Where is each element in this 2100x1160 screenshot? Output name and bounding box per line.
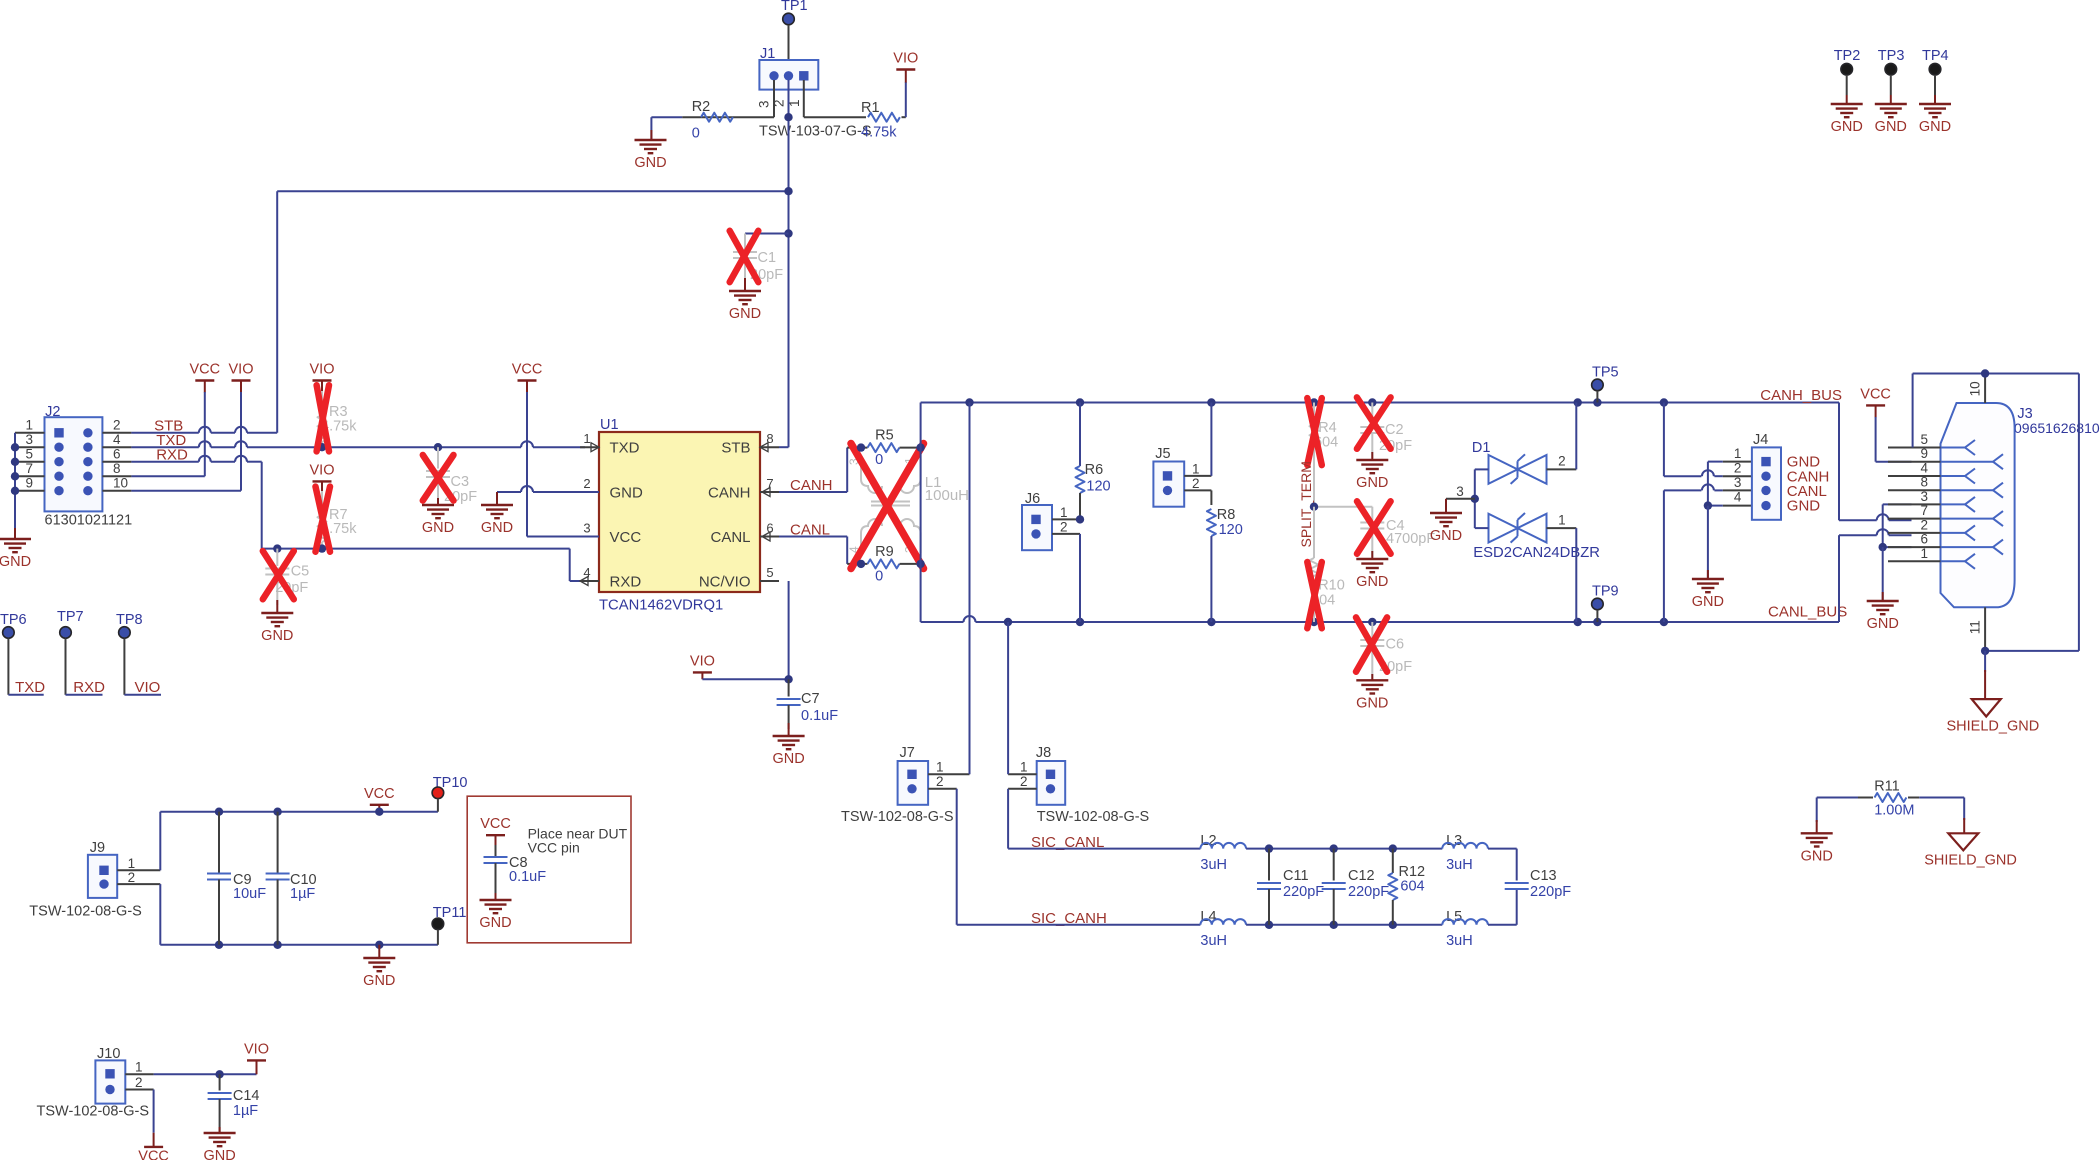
svg-text:TXD: TXD — [15, 679, 45, 696]
ground GND (TP3) — [1875, 103, 1907, 105]
svg-text:VIO: VIO — [310, 462, 335, 478]
svg-text:3: 3 — [1456, 484, 1464, 499]
ground GND (R2) — [650, 130, 652, 140]
ground GND (C2) — [1371, 452, 1373, 460]
ground GND (J4) — [1707, 570, 1709, 579]
resistor R4 (DNP) — [1313, 403, 1315, 416]
svg-text:TP3: TP3 — [1878, 48, 1905, 64]
DNP cross C2 — [1357, 397, 1391, 448]
ground SHIELD_GND (R11) — [1948, 833, 1978, 850]
svg-text:C1: C1 — [758, 250, 777, 266]
svg-text:RXD: RXD — [73, 679, 105, 696]
ground GND (J2) — [14, 528, 16, 539]
svg-text:VIO: VIO — [229, 362, 254, 378]
svg-text:1: 1 — [1060, 505, 1068, 520]
node junctions CANL bus — [1004, 618, 1012, 626]
wire CANH — [779, 491, 847, 493]
svg-text:TP9: TP9 — [1592, 584, 1619, 600]
svg-text:1: 1 — [1920, 546, 1928, 561]
ground GND (C1) — [744, 278, 746, 291]
svg-text:VIO: VIO — [244, 1041, 269, 1057]
svg-text:L2: L2 — [1200, 833, 1216, 849]
svg-text:GND: GND — [203, 1148, 235, 1160]
svg-text:TXD: TXD — [610, 440, 640, 457]
wire J9 pin1 — [117, 869, 160, 871]
note box place near DUT — [467, 796, 631, 943]
ground GND (D1) — [1445, 499, 1447, 513]
capacitor C10 — [273, 808, 281, 816]
svg-text:U1: U1 — [600, 417, 619, 433]
wire J10 pin1 to VIO — [125, 1073, 153, 1075]
ground GND (C5) — [276, 600, 278, 613]
svg-text:2: 2 — [128, 870, 136, 885]
wire J8 pin2 to SIC_CANL — [1008, 788, 1037, 790]
wire J1 pin1 stub — [803, 80, 805, 117]
svg-text:1: 1 — [1192, 462, 1200, 477]
svg-text:SHIELD_GND: SHIELD_GND — [1947, 719, 2040, 735]
svg-text:TP8: TP8 — [116, 612, 143, 628]
DNP cross C4 — [1357, 501, 1391, 554]
svg-text:J8: J8 — [1036, 745, 1051, 761]
node junctions L1 — [857, 443, 865, 451]
svg-text:4: 4 — [1734, 490, 1742, 505]
power VCC (J2 pin8) — [195, 379, 214, 381]
svg-text:C14: C14 — [233, 1088, 260, 1104]
ground GND (J3) — [1882, 592, 1884, 601]
wire CANH bus to J4 pin2 — [1663, 403, 1665, 477]
svg-text:7: 7 — [1920, 503, 1928, 518]
svg-text:4: 4 — [1920, 461, 1928, 476]
svg-text:R10: R10 — [1318, 578, 1345, 594]
svg-text:9: 9 — [1920, 446, 1928, 461]
svg-text:10: 10 — [1968, 381, 1983, 396]
svg-text:VCC pin: VCC pin — [528, 840, 580, 856]
wire CANH bus to J3 pin7 — [1838, 403, 1840, 521]
svg-text:8: 8 — [1920, 475, 1928, 490]
svg-text:VIO: VIO — [893, 51, 918, 67]
wire D1 pin1 — [1547, 527, 1577, 529]
svg-text:TP4: TP4 — [1922, 48, 1949, 64]
svg-text:2: 2 — [1734, 461, 1742, 476]
U1 right pin stubs and numbers — [760, 446, 779, 448]
capacitor C13 — [1505, 882, 1529, 884]
wire CANL bus to J4 pin3 — [1663, 490, 1665, 622]
svg-text:CANH_BUS: CANH_BUS — [1760, 387, 1842, 404]
wire split node to C4 — [1314, 506, 1372, 508]
svg-text:2: 2 — [1558, 454, 1566, 469]
capacitor C5 (DNP) — [273, 544, 281, 552]
wire RXD to U1 pin4 — [569, 549, 571, 581]
resistor R3 (DNP) — [321, 391, 323, 415]
capacitor C12 — [1330, 844, 1338, 852]
wire GND rail bottom — [160, 944, 438, 946]
svg-text:VIO: VIO — [310, 362, 335, 378]
svg-text:C7: C7 — [801, 691, 820, 707]
svg-text:8: 8 — [113, 461, 121, 476]
node junction R6/J6 — [1076, 515, 1084, 523]
svg-text:ESD2CAN24DBZR: ESD2CAN24DBZR — [1473, 545, 1600, 561]
capacitor C9 — [215, 808, 223, 816]
svg-text:120: 120 — [1086, 479, 1110, 495]
svg-text:VCC: VCC — [1860, 386, 1891, 402]
wire TXD row — [131, 446, 198, 448]
svg-text:1: 1 — [583, 431, 590, 446]
svg-text:R5: R5 — [875, 428, 894, 444]
svg-text:GND: GND — [1356, 475, 1388, 491]
capacitor C11 — [1265, 844, 1273, 852]
wire VIO vertical to J2 pin10 — [240, 392, 242, 491]
svg-text:3uH: 3uH — [1200, 857, 1227, 873]
power VIO (C7) — [693, 671, 712, 673]
svg-text:10uF: 10uF — [233, 886, 266, 902]
wire VIO to C7 node — [702, 678, 788, 680]
wire J6 pin1 to R6 — [1052, 518, 1080, 520]
svg-text:GND: GND — [261, 628, 293, 644]
svg-text:TP1: TP1 — [781, 0, 808, 14]
wire STB vertical — [276, 191, 278, 433]
svg-text:0: 0 — [875, 569, 883, 585]
svg-text:TP6: TP6 — [0, 612, 27, 628]
svg-text:GND: GND — [1867, 616, 1899, 632]
wire RXD row — [131, 461, 198, 463]
svg-text:1: 1 — [1734, 446, 1742, 461]
svg-text:J4: J4 — [1753, 432, 1768, 448]
node junction J1 pin2 / R1-R2 rail — [784, 113, 792, 121]
svg-text:SHIELD_GND: SHIELD_GND — [1924, 853, 2017, 869]
DNP cross R3 — [317, 385, 329, 451]
wire J9 pin2 — [117, 883, 160, 885]
J3 pin stubs and numbers — [1888, 447, 1941, 449]
svg-text:GND: GND — [1875, 119, 1907, 135]
power VCC (C8) — [486, 834, 505, 836]
svg-text:VIO: VIO — [135, 679, 161, 696]
svg-text:6: 6 — [1920, 532, 1928, 547]
svg-text:GND: GND — [1787, 498, 1821, 515]
svg-text:J7: J7 — [900, 745, 915, 761]
wire L4 to C11 — [1246, 924, 1269, 926]
svg-text:0.1uF: 0.1uF — [801, 708, 838, 724]
svg-text:GND: GND — [1692, 594, 1724, 610]
wire VCC vertical to U1 pin3 — [526, 392, 528, 537]
svg-text:3: 3 — [583, 521, 590, 536]
svg-text:J5: J5 — [1155, 446, 1170, 462]
wire L5 to C13 — [1488, 924, 1517, 926]
wire CANH bus rail — [921, 402, 1839, 404]
wire J10 pin2 to VCC — [125, 1089, 153, 1091]
svg-text:3: 3 — [25, 432, 33, 447]
svg-text:GND: GND — [729, 306, 761, 322]
wire RXD lower row — [262, 548, 570, 550]
wire J5 pin1 to CANH bus — [1184, 475, 1211, 477]
svg-text:TP5: TP5 — [1592, 365, 1619, 381]
wire J2 right pin stubs — [102, 432, 131, 434]
svg-text:09651626810: 09651626810 — [2014, 420, 2100, 436]
svg-text:C12: C12 — [1348, 868, 1375, 884]
ground GND (TP4) — [1919, 103, 1951, 105]
ground SHIELD_GND (J3) — [1972, 699, 2001, 716]
wire D1 pin2 — [1547, 468, 1577, 470]
DNP cross C6 — [1356, 617, 1387, 671]
wire J2 left ground bus — [14, 433, 16, 534]
wire J1 pin3 stub — [773, 80, 775, 117]
node junction STB — [784, 187, 792, 195]
wire CANL bus to J3 pin2 — [1838, 535, 1840, 622]
capacitor C7 — [788, 679, 790, 696]
svg-text:220pF: 220pF — [1283, 884, 1324, 900]
svg-text:VCC: VCC — [512, 362, 543, 378]
U1 pin arrows — [591, 443, 599, 452]
capacitor C8 — [495, 845, 497, 857]
DNP cross C5 — [263, 551, 294, 599]
svg-text:3: 3 — [757, 100, 772, 108]
wire RXD vertical — [261, 462, 263, 549]
wire CANL bus rail — [921, 621, 964, 623]
svg-text:TP2: TP2 — [1834, 48, 1861, 64]
svg-text:3: 3 — [1734, 475, 1742, 490]
svg-text:C6: C6 — [1386, 637, 1405, 653]
svg-text:GND: GND — [0, 554, 31, 570]
svg-text:2: 2 — [1020, 774, 1028, 789]
svg-text:GND: GND — [1801, 848, 1833, 864]
DNP cross R4 — [1307, 398, 1322, 465]
DNP cross R7 — [316, 487, 331, 552]
wire L3 to C13 — [1488, 848, 1517, 850]
wire J2 left pin stubs — [15, 432, 45, 434]
U1 left pin stubs and numbers — [580, 446, 599, 448]
svg-text:1: 1 — [25, 417, 33, 432]
svg-text:4: 4 — [113, 432, 121, 447]
svg-text:0: 0 — [875, 452, 883, 468]
power VIO (J2 pin10) — [232, 379, 251, 381]
svg-text:VCC: VCC — [610, 529, 642, 546]
DNP cross R10 — [1307, 562, 1322, 628]
ground GND (C8) — [495, 893, 497, 900]
svg-text:2: 2 — [1920, 517, 1928, 532]
J3 contact forks — [1941, 447, 1966, 449]
DNP cross C3 — [423, 455, 454, 501]
wire J3 pin3/pin6 ground — [1883, 503, 1912, 505]
power VIO (R3) — [313, 379, 332, 381]
ground GND (C3) — [437, 498, 439, 505]
wire SIC_CANL — [1008, 848, 1200, 850]
svg-text:C2: C2 — [1385, 422, 1404, 438]
wire J4 pin1 to ground — [1723, 461, 1752, 463]
svg-text:R6: R6 — [1085, 462, 1104, 478]
svg-text:VIO: VIO — [690, 653, 715, 669]
svg-text:2: 2 — [113, 417, 121, 432]
ground GND (R11) — [1816, 820, 1818, 833]
svg-text:2: 2 — [1192, 476, 1200, 491]
svg-text:5: 5 — [1920, 432, 1928, 447]
svg-text:GND: GND — [1356, 574, 1388, 590]
node junctions J2 left bus — [11, 443, 19, 451]
wire R11 to SHIELD_GND — [1963, 798, 1965, 821]
ground GND (U1 pin2) — [497, 491, 521, 493]
svg-text:GND: GND — [363, 973, 395, 989]
svg-text:7: 7 — [25, 461, 33, 476]
svg-text:GND: GND — [422, 520, 454, 536]
J3 pin11 stub — [1984, 607, 1986, 651]
svg-text:100uH: 100uH — [925, 487, 969, 504]
svg-text:5: 5 — [25, 446, 33, 461]
svg-text:GND: GND — [772, 751, 804, 767]
svg-text:R9: R9 — [875, 544, 894, 560]
wire J7 pin1 to CANH bus — [928, 773, 969, 775]
svg-text:TSW-102-08-G-S: TSW-102-08-G-S — [29, 904, 142, 920]
svg-text:VCC: VCC — [189, 362, 220, 378]
svg-text:GND: GND — [1430, 528, 1462, 544]
svg-text:604: 604 — [1400, 879, 1424, 895]
wire R2 to GND — [650, 117, 652, 139]
DNP cross L1 — [851, 444, 924, 569]
svg-text:4700pF: 4700pF — [1386, 531, 1435, 547]
wire J4 pin4 to ground — [1723, 505, 1752, 507]
svg-text:2: 2 — [583, 476, 590, 491]
svg-text:VCC: VCC — [138, 1148, 169, 1160]
wire R1 to VIO — [905, 82, 907, 117]
svg-text:9: 9 — [25, 475, 33, 490]
svg-text:C3: C3 — [451, 474, 470, 490]
wire TP1 to J1 pin2 — [788, 25, 790, 60]
svg-text:1: 1 — [135, 1060, 143, 1075]
svg-text:1µF: 1µF — [233, 1103, 258, 1119]
svg-text:L4: L4 — [1200, 909, 1216, 925]
node junction R3/TXD — [318, 443, 326, 451]
node junction split — [1310, 503, 1318, 511]
power VCC (J10) — [153, 1133, 155, 1147]
capacitor C3 (DNP) — [434, 443, 442, 451]
power VCC (U1 pin3) — [518, 379, 537, 381]
svg-text:3uH: 3uH — [1446, 857, 1473, 873]
svg-text:C5: C5 — [291, 564, 310, 580]
power VCC (J9 rail) — [370, 804, 389, 806]
ground GND (TP2) — [1831, 103, 1863, 105]
svg-text:3: 3 — [1920, 489, 1928, 504]
svg-text:CANL: CANL — [710, 529, 750, 546]
ground GND (C14) — [219, 1127, 221, 1133]
svg-text:TP7: TP7 — [57, 609, 84, 625]
svg-text:2: 2 — [135, 1075, 143, 1090]
power VIO (R7) — [313, 480, 332, 482]
resistor R7 (DNP) — [321, 491, 323, 515]
svg-text:2: 2 — [936, 774, 944, 789]
svg-text:6: 6 — [113, 446, 121, 461]
svg-text:GND: GND — [1356, 695, 1388, 711]
DNP cross C1 — [730, 231, 759, 282]
svg-text:220pF: 220pF — [1348, 884, 1389, 900]
svg-text:GND: GND — [634, 155, 666, 171]
svg-text:0: 0 — [692, 126, 700, 142]
svg-text:11: 11 — [1968, 620, 1983, 634]
svg-text:NC/VIO: NC/VIO — [699, 573, 751, 590]
svg-text:TSW-102-08-G-S: TSW-102-08-G-S — [1037, 809, 1150, 825]
svg-text:C11: C11 — [1283, 868, 1309, 884]
power VIO (J10) — [247, 1059, 266, 1061]
svg-text:4.75k: 4.75k — [861, 125, 897, 141]
ground GND (C7) — [788, 723, 790, 736]
capacitor C4 (DNP) — [1371, 507, 1373, 520]
svg-text:VCC: VCC — [364, 786, 395, 802]
svg-text:3uH: 3uH — [1446, 933, 1473, 949]
wire VCC to J3 pin9 — [1875, 417, 1877, 462]
wire SIC mid rails — [1269, 848, 1442, 850]
resistor R10 (DNP) — [1313, 507, 1315, 558]
wire U1 pin5 NC/VIO — [788, 581, 790, 679]
svg-text:GND: GND — [481, 520, 513, 536]
wire STB horizontal y=191 — [277, 190, 788, 192]
svg-text:R2: R2 — [692, 99, 711, 115]
J3 pin10 stub — [1984, 374, 1986, 404]
ground GND (C6) — [1371, 674, 1373, 680]
ground GND (J9 rail) — [375, 941, 383, 949]
capacitor C1 (DNP) — [784, 229, 792, 237]
svg-text:1: 1 — [936, 760, 944, 775]
svg-text:RXD: RXD — [610, 573, 642, 590]
svg-text:61301021121: 61301021121 — [45, 513, 133, 529]
node junctions CANH bus — [965, 398, 973, 406]
svg-text:C13: C13 — [1530, 868, 1557, 884]
power VIO (R1) — [896, 68, 915, 70]
svg-text:TSW-103-07-G-S: TSW-103-07-G-S — [759, 124, 872, 140]
svg-text:1µF: 1µF — [290, 886, 315, 902]
wire SIC_CANH — [957, 924, 1201, 926]
svg-text:120: 120 — [1219, 522, 1243, 538]
svg-text:TSW-102-08-G-S: TSW-102-08-G-S — [841, 809, 954, 825]
wire J8 pin1 to CANL bus — [1008, 773, 1037, 775]
wire J3 pin11 to shield ground — [1984, 651, 1986, 672]
wire left bus vertical — [920, 403, 922, 623]
wire CANL — [779, 536, 847, 538]
power VCC (J3 pin9) — [1866, 404, 1885, 406]
svg-text:J9: J9 — [90, 840, 105, 856]
svg-text:GND: GND — [1919, 119, 1951, 135]
svg-text:R8: R8 — [1217, 507, 1236, 523]
wire STB row — [131, 432, 198, 434]
svg-text:2: 2 — [1060, 520, 1068, 535]
svg-text:CANH: CANH — [708, 484, 751, 501]
ground GND (C4) — [1371, 551, 1373, 559]
wire J1 pin2 vertical — [788, 80, 790, 447]
wire U1 STB connection — [779, 446, 789, 448]
svg-text:3uH: 3uH — [1200, 933, 1227, 949]
capacitor C14 — [219, 1074, 221, 1090]
svg-text:220pF: 220pF — [1530, 884, 1571, 900]
wire L2 to C11 — [1246, 848, 1269, 850]
svg-text:GND: GND — [1831, 119, 1863, 135]
svg-text:TSW-102-08-G-S: TSW-102-08-G-S — [37, 1104, 150, 1120]
wire J7 pin2 to SIC_CANH — [928, 788, 957, 790]
svg-text:5: 5 — [766, 565, 773, 580]
node junction R7/RXD — [318, 544, 326, 552]
capacitor C2 (DNP) — [1371, 403, 1373, 425]
wire VCC rail top — [160, 811, 438, 813]
svg-text:R11: R11 — [1874, 779, 1900, 795]
svg-text:1: 1 — [1558, 513, 1566, 528]
wire J6 pin2 to CANL bus — [1052, 533, 1080, 535]
wire D1 pin3 common — [1475, 468, 1489, 470]
svg-text:1.00M: 1.00M — [1874, 803, 1914, 819]
svg-text:CANL_BUS: CANL_BUS — [1768, 604, 1847, 621]
svg-text:10: 10 — [113, 475, 128, 490]
svg-text:GND: GND — [479, 915, 511, 931]
wire J5 pin2 to R8 — [1184, 489, 1211, 491]
capacitor C6 (DNP) — [1371, 622, 1373, 640]
svg-text:1: 1 — [128, 856, 136, 871]
svg-text:TCAN1462VDRQ1: TCAN1462VDRQ1 — [599, 598, 723, 614]
svg-text:GND: GND — [610, 484, 644, 501]
wire R11 to GND — [1816, 798, 1818, 823]
svg-text:0.1uF: 0.1uF — [509, 869, 546, 885]
